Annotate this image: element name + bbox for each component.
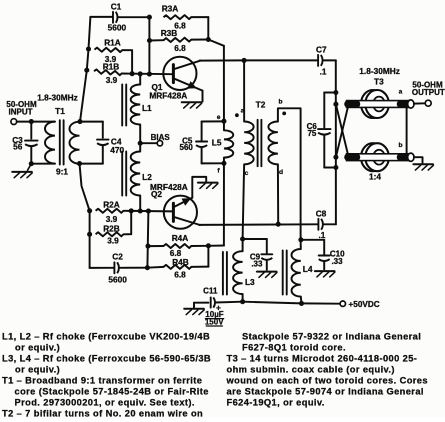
resistor R1A 3.9 <box>95 48 123 53</box>
node C6 bottom <box>333 165 338 170</box>
node BIAS junction <box>138 141 143 146</box>
inductor L2 <box>139 143 141 151</box>
resistor R2A 3.9 <box>96 209 124 213</box>
svg-text:.1: .1 <box>320 66 327 76</box>
inductor L5 <box>223 121 225 130</box>
node R2A left <box>87 208 92 213</box>
svg-text:C1: C1 <box>111 1 122 11</box>
capacitor C2 5600 <box>89 234 91 268</box>
node R2B left <box>87 232 92 237</box>
wire T3 column <box>335 60 337 224</box>
node T2-b / L4 / C10 <box>298 237 303 242</box>
node balun top-left <box>333 102 338 107</box>
node T2-c / L3 / C9 <box>240 236 245 241</box>
svg-text:150V: 150V <box>205 318 224 327</box>
svg-text:C8: C8 <box>316 209 327 219</box>
wire feedback column upper <box>223 46 225 121</box>
node C1/R3A junction <box>147 15 152 20</box>
svg-text:C2: C2 <box>112 251 123 261</box>
inductor L4 <box>300 240 302 249</box>
svg-text:.33: .33 <box>251 259 263 268</box>
ground (C10) <box>315 270 335 272</box>
wire R4 column <box>147 211 148 268</box>
node R2B right at base <box>129 208 134 213</box>
transformer T1 secondary winding <box>70 122 80 164</box>
svg-text:c: c <box>245 170 249 177</box>
svg-text:a: a <box>241 108 245 115</box>
node f <box>221 161 226 166</box>
svg-text:core (Stackpole 57-1845-24B or: core (Stackpole 57-1845-24B or Fair-Rite <box>15 387 209 397</box>
svg-text:56: 56 <box>13 142 23 152</box>
ground (Q1 emitter) <box>182 101 202 103</box>
svg-text:9:1: 9:1 <box>56 166 68 176</box>
wire R3 column <box>148 17 150 74</box>
wire input to T1 <box>17 121 55 123</box>
inductor L1 <box>139 74 141 85</box>
svg-text:R1A: R1A <box>104 38 121 48</box>
svg-text:R3B: R3B <box>161 28 178 38</box>
svg-text:T1: T1 <box>55 106 65 116</box>
capacitor C1 5600 <box>90 16 112 18</box>
svg-text:R1B: R1B <box>103 62 120 72</box>
svg-text:INPUT: INPUT <box>9 108 33 117</box>
wire T1 primary bottom <box>31 163 55 165</box>
inductor L4 core <box>282 251 284 295</box>
svg-text:1:4: 1:4 <box>369 171 381 181</box>
capacitor C7 .1 <box>244 59 318 61</box>
svg-text:T3: T3 <box>374 76 384 86</box>
node L1 top at base <box>138 71 143 76</box>
ground (C11) <box>184 308 204 310</box>
capacitor C11 10uF 150V <box>193 303 195 308</box>
ground (C9) <box>257 271 277 273</box>
transistor Q2 MRF428A <box>164 196 197 229</box>
svg-text:a: a <box>399 89 403 96</box>
inductor L1 core <box>121 85 123 126</box>
ground (output) <box>413 163 433 165</box>
node balun bottom-left <box>333 155 338 160</box>
T2 phasing dot a <box>235 113 239 117</box>
node R3B right <box>206 37 211 42</box>
capacitor C3 56 <box>30 122 32 139</box>
svg-text:F624-19Q1, or equiv.: F624-19Q1, or equiv. <box>227 398 325 408</box>
svg-text:L3, L4 – Rf choke (Ferroxcube: L3, L4 – Rf choke (Ferroxcube 56-590-65/… <box>2 354 211 364</box>
wire T2-b to L4 column <box>278 108 301 240</box>
wire Q1 base row <box>122 73 173 76</box>
capacitor C5 560 <box>202 120 224 122</box>
node R1A left <box>86 46 91 51</box>
svg-text:L3: L3 <box>245 277 255 287</box>
wire T2-a column <box>243 60 245 121</box>
wire R3B right to feedback line <box>208 40 224 46</box>
resistor R3A 6.8 <box>164 15 192 19</box>
wire Q2 emitter to ground <box>192 177 206 198</box>
resistor R3B 6.8 <box>150 39 164 41</box>
node R3 column at base <box>147 72 152 77</box>
wire supply rail <box>243 302 302 304</box>
node R1A right at base <box>130 71 135 76</box>
capacitor C6 75 <box>324 92 336 94</box>
svg-text:F627-8Q1 toroid core.: F627-8Q1 toroid core. <box>242 343 346 353</box>
wire balun right interconnect <box>406 104 408 157</box>
svg-text:wound on each of two toroid co: wound on each of two toroid cores. Cores <box>226 376 428 386</box>
node T2-d on rail <box>276 222 281 227</box>
node C3 bottom <box>29 161 34 166</box>
svg-text:5600: 5600 <box>108 22 127 32</box>
capacitor C10 .33 <box>301 239 324 241</box>
svg-text:T1 – Broadband 9:1 transformer: T1 – Broadband 9:1 transformer on ferrit… <box>2 376 202 386</box>
svg-text:L2: L2 <box>142 172 152 182</box>
svg-text:3.9: 3.9 <box>106 214 118 224</box>
wire T2-c to L3 <box>243 164 245 239</box>
svg-text:1.8-30MHz: 1.8-30MHz <box>359 66 400 76</box>
svg-text:e: e <box>217 114 221 121</box>
node L2 bottom at base <box>138 208 143 213</box>
svg-text:MRF428A: MRF428A <box>149 91 187 101</box>
svg-text:T2: T2 <box>256 99 266 109</box>
capacitor C8 .1 <box>317 219 319 230</box>
inductor L3 core <box>222 252 224 295</box>
svg-text:R4B: R4B <box>172 257 189 267</box>
node C6 top <box>333 90 338 95</box>
svg-text:.33: .33 <box>331 257 343 266</box>
svg-text:or equiv.): or equiv.) <box>15 343 60 353</box>
svg-text:560: 560 <box>180 143 194 152</box>
ground (input) <box>28 164 32 171</box>
transformer T2 left winding <box>244 122 254 165</box>
svg-text:6.8: 6.8 <box>174 270 186 280</box>
svg-text:Stackpole 57-9322 or Indiana G: Stackpole 57-9322 or Indiana General <box>242 332 421 342</box>
transformer T1 primary winding <box>45 122 55 164</box>
node C2 right / R4B left <box>145 265 150 270</box>
output terminal 50-OHM OUTPUT <box>414 102 426 104</box>
T3 coax transformer (bottom) <box>361 143 385 171</box>
svg-text:L5: L5 <box>212 137 222 147</box>
node R4 column at base <box>146 209 151 214</box>
resistor R1B 3.9 <box>94 69 122 75</box>
svg-text:R2A: R2A <box>103 199 120 209</box>
node R4A left <box>145 244 150 249</box>
svg-text:.1: .1 <box>318 230 325 240</box>
svg-text:3.9: 3.9 <box>107 235 119 245</box>
svg-text:Q2: Q2 <box>151 189 162 199</box>
transformer T2 core <box>257 120 259 166</box>
BIAS terminal <box>140 142 157 144</box>
wire output ground <box>414 157 423 163</box>
+50VDC terminal <box>340 301 345 306</box>
T3 coax transformer (top) <box>361 90 385 118</box>
wire Q1 emitter to ground <box>202 91 204 102</box>
svg-text:R3A: R3A <box>162 3 179 13</box>
node R3B left <box>147 38 152 43</box>
svg-text:L1, L2 – Rf choke (Ferroxcube: L1, L2 – Rf choke (Ferroxcube VK200-19/4… <box>2 332 210 342</box>
transformer T2 right winding <box>268 122 278 165</box>
svg-text:T3 – 14 turns Microdot 260-411: T3 – 14 turns Microdot 260-4118-000 25- <box>227 354 418 364</box>
wire Q2 base row <box>131 210 172 213</box>
svg-text:+50VDC: +50VDC <box>349 300 380 309</box>
wire left column (T1 top to C1 corner) <box>80 17 90 122</box>
node R1B left <box>84 68 89 73</box>
node T1 secondary bottom <box>77 161 82 166</box>
inductor L3 <box>242 239 244 251</box>
wire Q1 collector <box>200 59 245 61</box>
svg-text:ohm submin. coax cable (or equ: ohm submin. coax cable (or equiv.) <box>227 365 395 375</box>
input terminal 50-OHM INPUT <box>11 119 17 125</box>
svg-text:470: 470 <box>110 145 124 155</box>
node Q1 collector / T2-a / C7 <box>242 58 247 63</box>
node R4A right <box>206 243 211 248</box>
svg-text:C11: C11 <box>203 287 218 296</box>
svg-text:OUTPUT: OUTPUT <box>412 88 445 97</box>
svg-text:b: b <box>278 99 282 106</box>
svg-text:are Stackpole 57-9074 or India: are Stackpole 57-9074 or Indiana General <box>227 387 424 397</box>
inductor L2 core <box>121 152 123 196</box>
svg-text:3.9: 3.9 <box>106 75 118 85</box>
resistor R4B 6.8 <box>147 266 163 269</box>
node T1 secondary top <box>77 119 82 124</box>
wire R4 right to feedback line <box>208 245 224 247</box>
svg-text:1.8-30MHz: 1.8-30MHz <box>37 92 78 102</box>
T2 phasing dot b <box>282 112 286 116</box>
svg-text:BIAS: BIAS <box>151 133 171 142</box>
balun crossover wires <box>336 104 349 157</box>
wire R2 column <box>89 211 91 235</box>
wire T2-d to collector rail <box>277 164 279 224</box>
svg-text:b: b <box>398 142 402 149</box>
svg-text:75: 75 <box>307 129 316 138</box>
transformer T1 core <box>59 120 61 164</box>
svg-text:or equiv.): or equiv.) <box>15 365 60 375</box>
capacitor C4 470 <box>80 121 103 123</box>
wire Q2 collector rail <box>199 223 318 226</box>
ground (Q2 emitter) <box>198 182 218 184</box>
svg-text:R4A: R4A <box>172 233 189 243</box>
svg-text:T2 – 7 bifilar turns of No. 20: T2 – 7 bifilar turns of No. 20 enam wire… <box>2 409 203 417</box>
resistor R4A 6.8 <box>148 245 164 247</box>
node input/C3 top <box>29 119 34 124</box>
svg-text:d: d <box>279 169 283 176</box>
transistor Q1 MRF428A <box>163 57 196 90</box>
resistor R2B 3.9 <box>96 232 124 236</box>
wire feedback column lower <box>223 163 225 245</box>
node L3 bottom <box>240 299 245 304</box>
svg-text:6.8: 6.8 <box>174 43 186 53</box>
svg-text:L1: L1 <box>142 103 152 113</box>
svg-text:R2B: R2B <box>103 223 120 233</box>
svg-text:Prod. 2973000201, or equiv. Se: Prod. 2973000201, or equiv. See text). <box>15 398 195 408</box>
svg-text:5600: 5600 <box>108 275 127 285</box>
svg-text:C7: C7 <box>316 44 327 54</box>
node L4 bottom <box>299 301 304 306</box>
svg-text:L4: L4 <box>303 264 313 274</box>
node e <box>221 119 226 124</box>
capacitor C9 .33 <box>243 238 267 240</box>
wire T1 bottom to R2 column <box>80 164 90 211</box>
